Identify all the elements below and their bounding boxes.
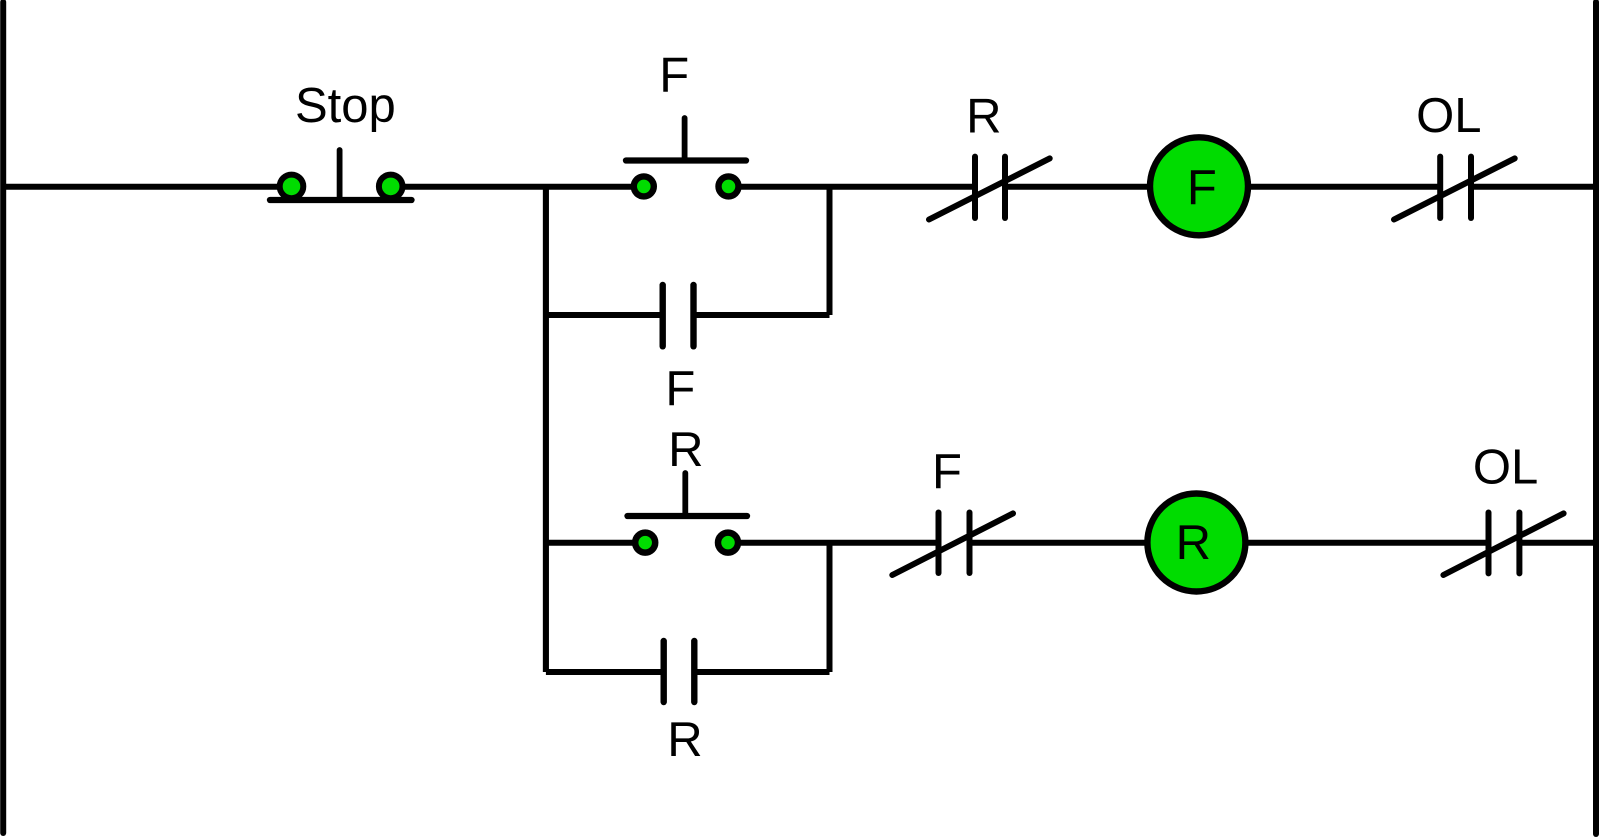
wire: rung-2 seal-in branch right segment	[696, 669, 830, 675]
svg-text:Stop: Stop	[295, 79, 396, 133]
right power rail L2	[1593, 2, 1599, 834]
wire: OL contact to right rail (rung 2)	[1519, 540, 1598, 546]
contact F (NC interlock, rung 2)	[892, 513, 1013, 576]
wire: R pushbutton to F contact	[741, 540, 940, 546]
svg-text:F: F	[659, 49, 689, 103]
wire: left rail to Stop button	[2, 184, 278, 190]
contact OL (overload NC, rung 1)	[1394, 157, 1515, 220]
branch vertical wire (left, down from rung 1 to rung 2 and branch)	[543, 187, 549, 672]
wire: F pushbutton to R contact	[741, 184, 976, 190]
branch vertical wire (right, rung 1 seal-in)	[827, 187, 833, 315]
coil R (reverse contactor)	[1147, 494, 1245, 592]
wire: F contact to R coil	[970, 540, 1148, 546]
svg-text:F: F	[665, 362, 695, 416]
left power rail L1	[0, 2, 6, 833]
wire: Stop to F pushbutton (junction at x=545.9)	[404, 184, 631, 190]
contact OL (overload NC, rung 2)	[1443, 513, 1563, 576]
wire: rung-2 seal-in branch left segment	[546, 669, 662, 675]
pushbutton Stop (NC)	[270, 150, 412, 200]
wire: R coil to OL contact (rung 2)	[1247, 540, 1490, 546]
contact R (NO seal-in, rung 2)	[664, 641, 695, 702]
pushbutton F (NO)	[626, 118, 746, 196]
contact F (NO seal-in, rung 1)	[663, 285, 694, 346]
branch vertical wire (right, rung 2 seal-in)	[827, 543, 833, 672]
wire: F coil to OL contact	[1249, 184, 1441, 190]
svg-text:F: F	[1187, 161, 1217, 215]
wire: R contact to F coil	[1005, 184, 1149, 190]
contact R (NC interlock, rung 1)	[929, 157, 1050, 220]
coil F (forward contactor)	[1150, 137, 1248, 235]
svg-text:R: R	[1176, 516, 1211, 570]
pushbutton R (NO)	[628, 473, 748, 553]
svg-text:OL: OL	[1473, 441, 1538, 495]
wire: rung 2 from branch to R pushbutton	[546, 540, 633, 546]
svg-text:F: F	[932, 445, 962, 499]
svg-text:R: R	[667, 713, 702, 767]
wire: seal-in branch right segment	[696, 312, 830, 318]
wire: OL contact to right rail (rung 1)	[1471, 184, 1598, 190]
svg-text:R: R	[966, 89, 1001, 143]
wire: seal-in branch left segment	[546, 312, 661, 318]
svg-text:OL: OL	[1416, 89, 1481, 143]
svg-text:R: R	[668, 423, 703, 477]
